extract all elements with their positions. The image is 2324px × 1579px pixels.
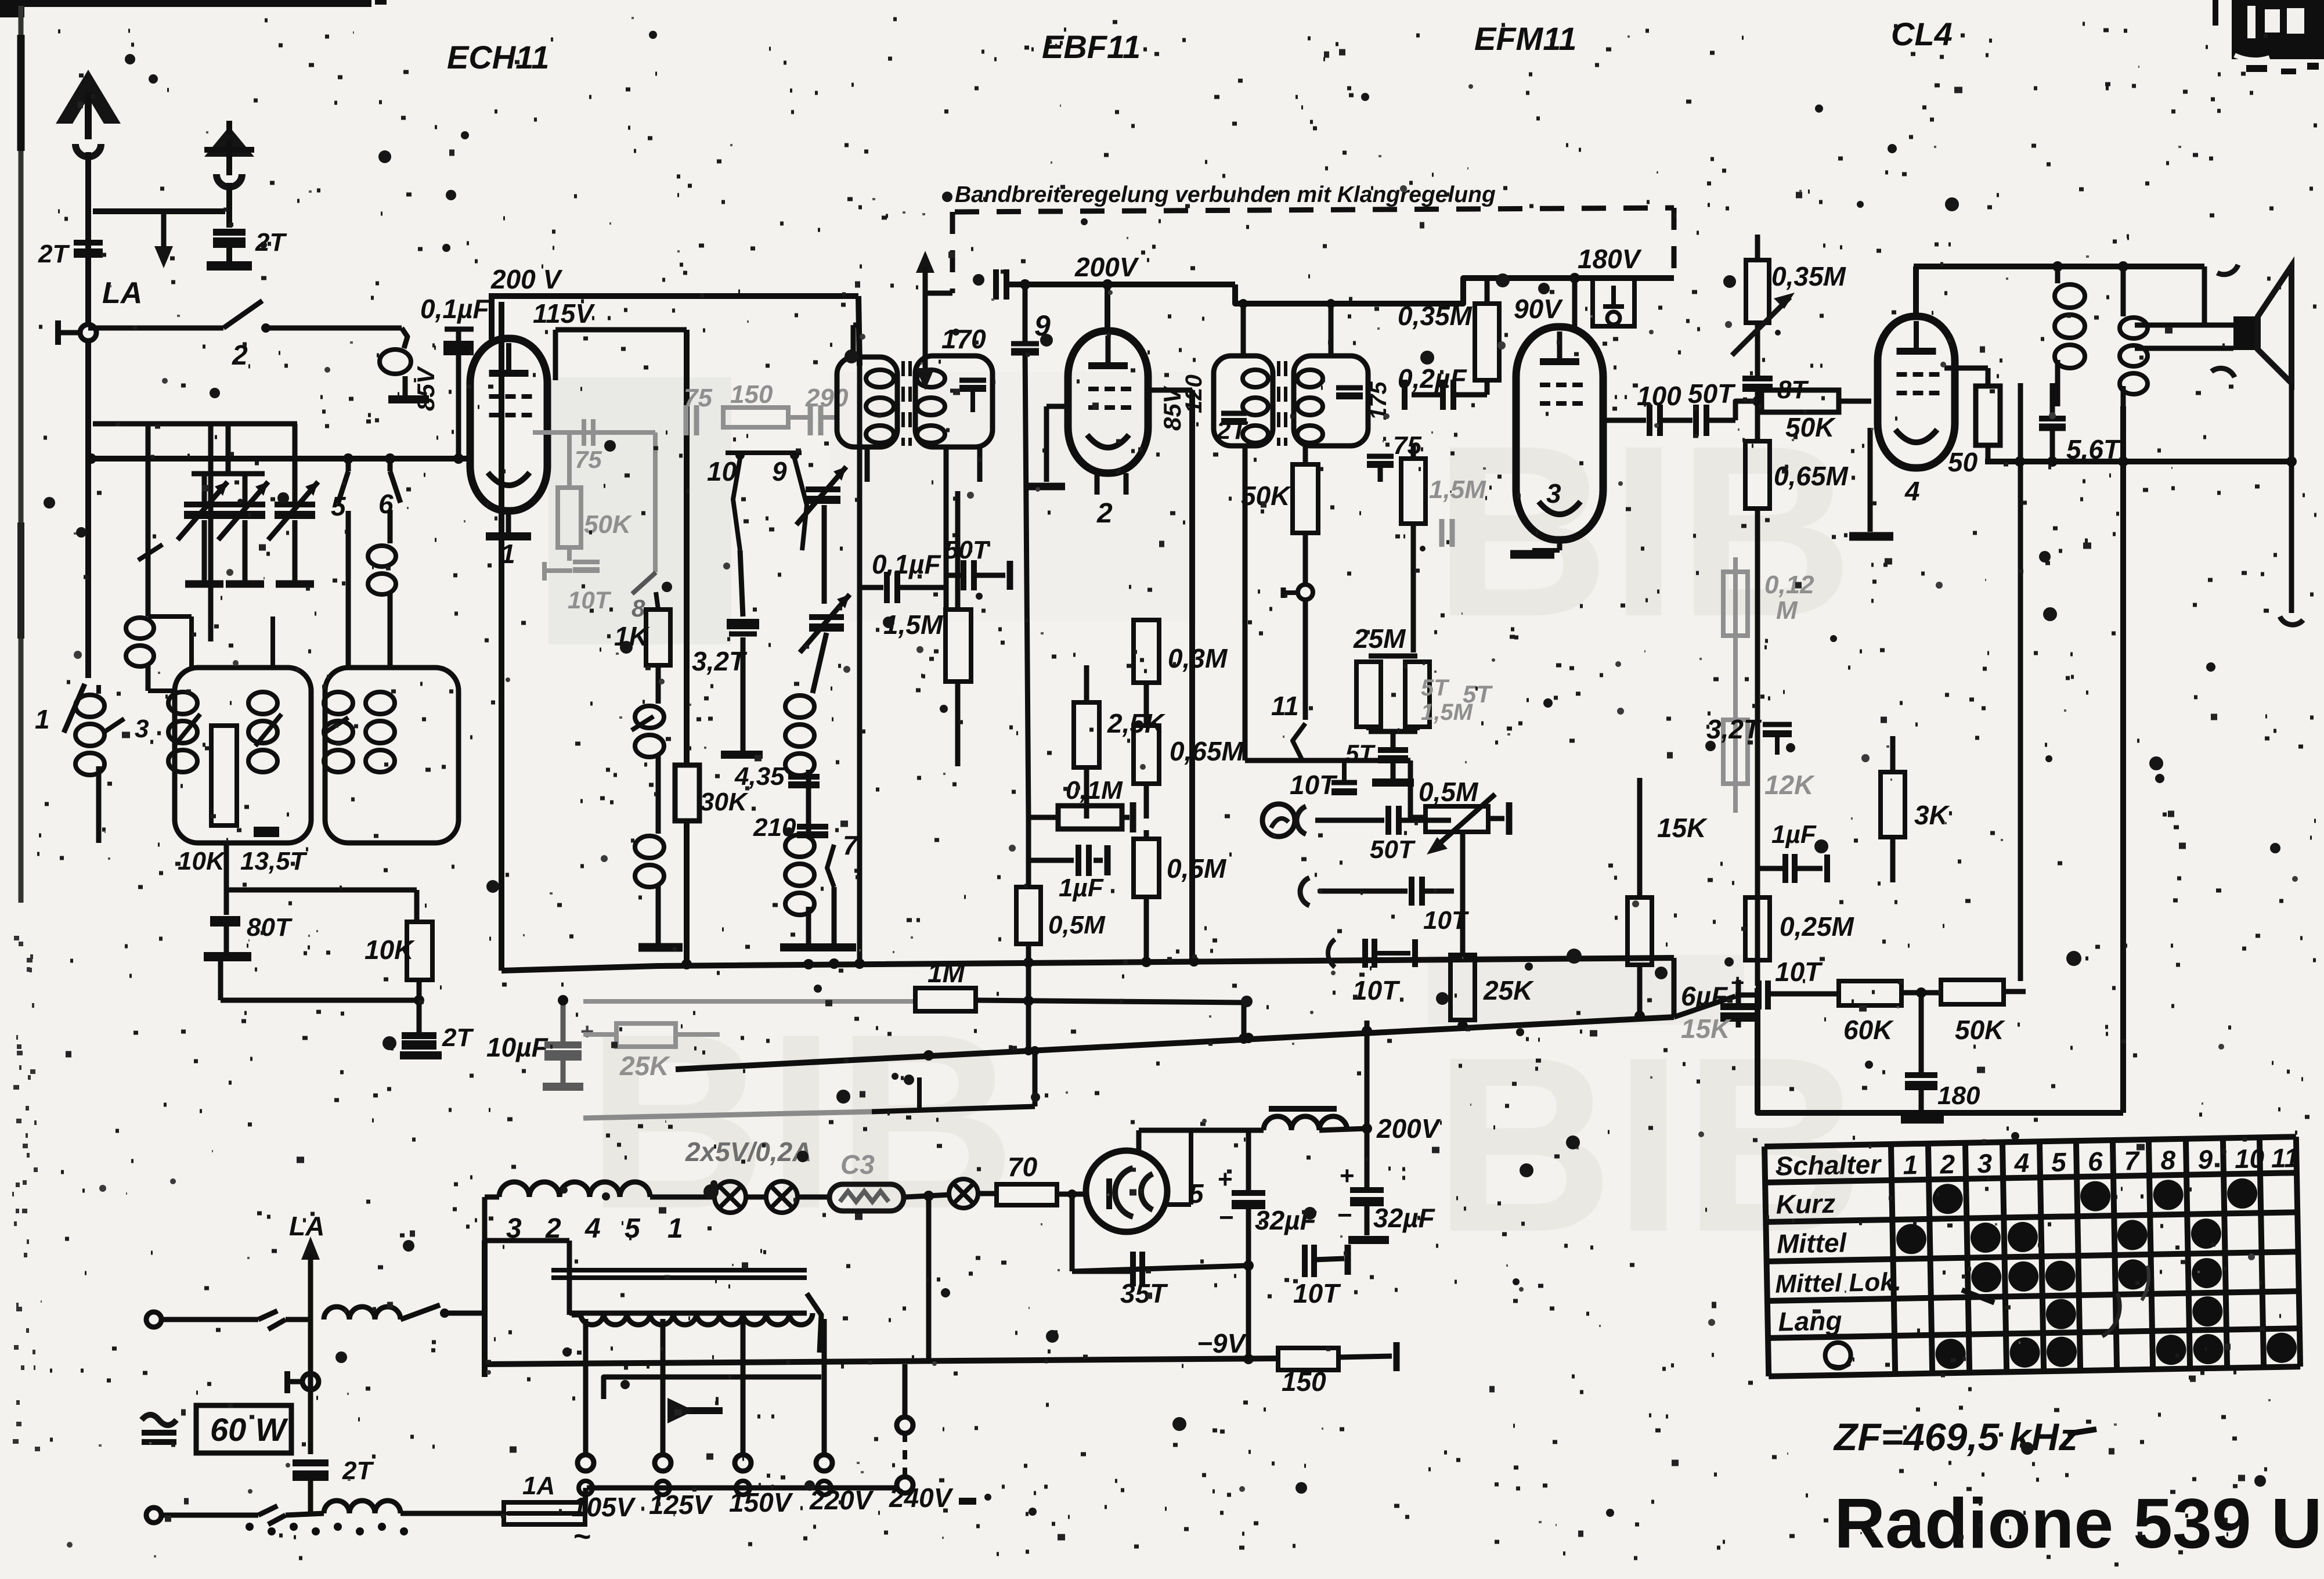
svg-text:0,1µF: 0,1µF: [872, 549, 941, 579]
svg-text:EFM11: EFM11: [1474, 20, 1576, 57]
svg-text:120: 120: [1181, 374, 1207, 413]
svg-text:200V: 200V: [1376, 1113, 1441, 1144]
svg-text:3K: 3K: [1914, 800, 1950, 830]
svg-text:10µF: 10µF: [486, 1032, 549, 1062]
svg-text:10T: 10T: [1290, 770, 1338, 800]
svg-text:6: 6: [2088, 1146, 2103, 1176]
svg-text:3: 3: [135, 715, 149, 743]
svg-text:10T: 10T: [1775, 957, 1823, 987]
svg-text:+: +: [1340, 1162, 1355, 1190]
svg-text:15K: 15K: [1681, 1014, 1731, 1044]
svg-text:10K: 10K: [365, 935, 415, 965]
svg-text:0,5M: 0,5M: [1048, 911, 1106, 939]
svg-text:1µF: 1µF: [1059, 874, 1104, 902]
svg-text:3,2T: 3,2T: [692, 646, 748, 676]
svg-text:10T: 10T: [1423, 906, 1469, 935]
svg-text:50K: 50K: [1955, 1015, 2005, 1045]
svg-text:25K: 25K: [1483, 975, 1534, 1005]
svg-text:LA: LA: [102, 276, 142, 310]
svg-text:10T: 10T: [1352, 975, 1401, 1005]
svg-text:M: M: [1776, 596, 1798, 625]
svg-text:7: 7: [843, 830, 859, 860]
svg-text:0,1µF: 0,1µF: [420, 294, 490, 324]
svg-text:15K: 15K: [1657, 813, 1708, 843]
svg-text:35T: 35T: [1120, 1278, 1168, 1308]
svg-text:60K: 60K: [1843, 1015, 1894, 1045]
svg-text:10: 10: [707, 456, 737, 486]
svg-text:8: 8: [2160, 1145, 2176, 1175]
svg-text:5: 5: [2051, 1147, 2067, 1177]
svg-text:25M: 25M: [1353, 623, 1406, 654]
svg-text:5T: 5T: [1421, 675, 1450, 701]
svg-text:220V: 220V: [809, 1485, 874, 1515]
svg-text:4: 4: [1904, 476, 1920, 506]
svg-text:180V: 180V: [1578, 244, 1642, 274]
svg-text:Kurz: Kurz: [1776, 1188, 1835, 1220]
svg-text:+: +: [580, 1019, 594, 1044]
svg-text:240V: 240V: [889, 1483, 954, 1513]
svg-text:80T: 80T: [247, 913, 293, 942]
svg-text:85V: 85V: [412, 366, 439, 411]
svg-text:1,5M: 1,5M: [1429, 475, 1486, 504]
svg-text:2T: 2T: [1216, 416, 1248, 445]
svg-text:9: 9: [772, 456, 787, 486]
svg-text:32µF: 32µF: [1373, 1203, 1436, 1233]
svg-text:10: 10: [2235, 1143, 2265, 1174]
svg-text:0,35M: 0,35M: [1771, 261, 1847, 291]
svg-text:5T: 5T: [1463, 680, 1493, 708]
svg-text:2x5V/0,2A: 2x5V/0,2A: [685, 1137, 811, 1167]
svg-text:8: 8: [631, 594, 645, 622]
svg-text:170: 170: [941, 324, 986, 354]
svg-text:50K: 50K: [1785, 412, 1836, 442]
svg-text:0,25M: 0,25M: [1780, 911, 1855, 942]
svg-text:−9V: −9V: [1197, 1328, 1247, 1358]
svg-text:2: 2: [1939, 1149, 1955, 1179]
svg-text:4: 4: [584, 1213, 601, 1244]
svg-text:90V: 90V: [1514, 294, 1563, 324]
svg-text:1A: 1A: [522, 1472, 555, 1500]
svg-text:0,1M: 0,1M: [1066, 776, 1123, 805]
svg-text:60 W: 60 W: [210, 1411, 288, 1448]
svg-text:Lang: Lang: [1778, 1306, 1842, 1337]
svg-text:5T: 5T: [1345, 740, 1376, 767]
svg-text:8T: 8T: [1777, 376, 1809, 404]
svg-text:200V: 200V: [1074, 252, 1139, 282]
svg-text:5: 5: [625, 1213, 641, 1244]
svg-text:4,35: 4,35: [734, 762, 785, 791]
svg-text:+: +: [1731, 970, 1744, 996]
svg-text:150: 150: [1282, 1367, 1326, 1397]
svg-text:9: 9: [2197, 1144, 2213, 1174]
svg-text:0,5M: 0,5M: [1167, 853, 1227, 884]
svg-text:2T: 2T: [442, 1023, 474, 1052]
svg-text:3,2T: 3,2T: [1706, 714, 1762, 744]
svg-text:3: 3: [1546, 478, 1561, 509]
svg-text:CL4: CL4: [1891, 16, 1953, 52]
svg-text:Mittel Lok.: Mittel Lok.: [1775, 1268, 1901, 1299]
svg-text:ECH11: ECH11: [447, 39, 549, 75]
svg-text:LA: LA: [289, 1211, 324, 1241]
svg-text:Mittel: Mittel: [1777, 1227, 1847, 1259]
svg-text:3: 3: [1977, 1148, 1993, 1178]
svg-text:50: 50: [1948, 447, 1978, 477]
svg-text:10T: 10T: [568, 586, 612, 614]
svg-text:1: 1: [35, 704, 50, 734]
svg-text:50T: 50T: [944, 536, 990, 564]
svg-text:2T: 2T: [38, 240, 70, 268]
svg-text:1: 1: [1903, 1149, 1918, 1180]
svg-text:2: 2: [1096, 498, 1113, 529]
svg-text:11: 11: [1271, 691, 1299, 721]
svg-text:4: 4: [2013, 1148, 2030, 1178]
svg-text:150: 150: [730, 380, 773, 409]
svg-text:1M: 1M: [928, 958, 966, 988]
svg-text:50T: 50T: [1688, 378, 1736, 409]
svg-text:30K: 30K: [700, 788, 749, 816]
svg-text:+: +: [1218, 1165, 1233, 1194]
svg-text:0,12: 0,12: [1764, 571, 1814, 599]
svg-text:75: 75: [575, 446, 602, 473]
svg-text:2T: 2T: [342, 1457, 374, 1485]
svg-text:50K: 50K: [584, 510, 633, 539]
svg-text:13,5T: 13,5T: [240, 847, 308, 875]
svg-text:75: 75: [1393, 431, 1421, 460]
svg-text:180: 180: [1937, 1081, 1980, 1110]
svg-text:−: −: [1219, 1203, 1234, 1232]
svg-text:50T: 50T: [1370, 835, 1416, 864]
svg-text:25K: 25K: [619, 1051, 670, 1081]
svg-text:0,3M: 0,3M: [1168, 643, 1228, 673]
svg-text:2,5K: 2,5K: [1107, 708, 1165, 738]
svg-text:0,65M: 0,65M: [1170, 736, 1245, 766]
svg-text:200 V: 200 V: [490, 264, 563, 294]
svg-text:−: −: [1337, 1201, 1352, 1230]
svg-text:Radione 539 U: Radione 539 U: [1834, 1484, 2322, 1563]
svg-text:10T: 10T: [1293, 1278, 1341, 1308]
svg-text:Bandbreiteregelung verbunden m: Bandbreiteregelung verbunden mit Klangre…: [955, 182, 1496, 207]
svg-text:12K: 12K: [1764, 770, 1815, 800]
svg-text:11: 11: [2271, 1142, 2300, 1173]
svg-text:ZF=469,5 kHz: ZF=469,5 kHz: [1833, 1415, 2078, 1458]
svg-text:150V: 150V: [729, 1487, 793, 1517]
svg-text:105V: 105V: [572, 1492, 636, 1522]
svg-text:115V: 115V: [533, 298, 595, 329]
svg-text:0,2µF: 0,2µF: [1398, 363, 1467, 394]
svg-text:1µF: 1µF: [1771, 820, 1817, 849]
svg-text:C3: C3: [840, 1149, 875, 1180]
svg-text:10K: 10K: [178, 847, 226, 875]
svg-text:0,5M: 0,5M: [1419, 777, 1479, 807]
svg-text:1: 1: [667, 1213, 683, 1244]
svg-text:70: 70: [1008, 1152, 1038, 1182]
svg-text:0,35M: 0,35M: [1398, 301, 1473, 331]
svg-text:Schalter: Schalter: [1775, 1149, 1882, 1181]
